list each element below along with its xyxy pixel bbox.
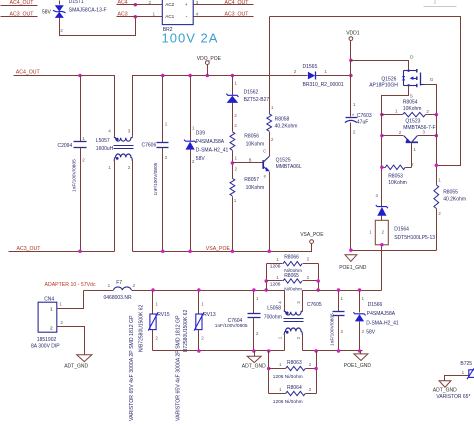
diode D1565 <box>308 72 316 80</box>
svg-text:C7604: C7604 <box>228 318 243 324</box>
transistor Q1526 P-MOSFET <box>402 69 425 87</box>
value BZT52-B27 <box>244 97 270 103</box>
pin 3 of D1564 <box>376 193 379 198</box>
svg-text:1: 1 <box>234 198 237 203</box>
svg-text:B725: B725 <box>460 361 472 367</box>
varistor RV15 <box>148 291 158 351</box>
node junction D1566 bottom <box>358 349 362 353</box>
node junction VDD1 drain row <box>349 58 353 62</box>
value 1nF/100V/0805 of C7604 <box>215 323 248 329</box>
svg-text:ADT_GND: ADT_GND <box>64 364 88 370</box>
resistor R8056 <box>230 132 235 151</box>
pin 2 of D1566 <box>362 329 365 334</box>
svg-text:-: - <box>186 14 188 20</box>
svg-text:40.2Kohm: 40.2Kohm <box>275 124 298 130</box>
svg-text:1206 Ni/0ohm: 1206 Ni/0ohm <box>273 374 303 380</box>
svg-text:AC4_OUT: AC4_OUT <box>16 69 41 75</box>
svg-text:1: 1 <box>462 370 465 375</box>
svg-text:MMBTA56-7-F: MMBTA56-7-F <box>403 125 435 131</box>
wire R8066 bracket left <box>266 264 268 291</box>
refdes D39 <box>196 130 205 136</box>
value 10Kohm of R8056 <box>246 142 265 148</box>
svg-text:AC3_OUT: AC3_OUT <box>17 246 42 252</box>
node junction Q1525 base tap <box>231 161 235 165</box>
refdes R8055 <box>443 190 458 196</box>
wire top rail right segment <box>133 76 308 137</box>
transistor Q1525 NPN <box>263 156 269 171</box>
diode D1562 zener <box>226 76 238 132</box>
svg-text:2: 2 <box>296 336 301 339</box>
pin 2 of D1565 <box>294 69 297 74</box>
node POE1_GND label upper <box>339 265 367 271</box>
pin 1 of R8057 <box>234 198 237 203</box>
svg-text:POE1_GND: POE1_GND <box>339 265 367 271</box>
svg-text:1: 1 <box>362 296 365 301</box>
wire Q1523 collector row <box>418 135 437 137</box>
pin 4 of L5057 <box>108 129 111 134</box>
wire R8066 bracket right <box>318 264 320 291</box>
svg-text:1: 1 <box>369 229 372 234</box>
refdes RV15 <box>157 312 170 318</box>
node VSA_POE label on bus <box>206 246 231 252</box>
node junction R8063 bracket right top <box>314 349 318 353</box>
node junction R8065 left <box>264 279 268 283</box>
value 1nF/100V/0805 of C7605 rotated <box>329 313 335 346</box>
svg-text:100V 2A: 100V 2A <box>162 31 219 46</box>
svg-text:2: 2 <box>438 211 441 216</box>
pin 1 of C7606 <box>165 122 168 127</box>
svg-text:POE1_GND: POE1_GND <box>344 363 372 369</box>
wire R8056 to R8057 <box>232 151 234 179</box>
value 8A 300V DIP <box>31 343 60 349</box>
diode D39 TVS <box>184 76 196 252</box>
refdes C7604 <box>228 318 243 324</box>
wire net AC3_OUT from bridge <box>194 16 254 18</box>
svg-text:B: B <box>249 158 252 163</box>
transistor Q1523 PNP <box>404 136 418 143</box>
node junction VDD1 D1565 row <box>349 74 353 78</box>
value 100V 2A of BR2 <box>162 31 219 46</box>
pin S of Q1526 <box>410 94 413 100</box>
wire Q1525 base <box>233 162 263 164</box>
refdes D1566 <box>368 302 383 308</box>
svg-text:1: 1 <box>234 80 237 85</box>
svg-text:1: 1 <box>50 307 53 313</box>
resistor R8055 <box>434 185 439 209</box>
value 1nF/100V/0805 of C2094 rotated <box>71 159 77 192</box>
ground ADT_GND at CN4 <box>77 355 92 362</box>
node junction D1566 top <box>358 288 362 292</box>
refdes R8064 <box>287 385 302 391</box>
svg-text:1: 1 <box>192 126 195 131</box>
svg-text:AC3: AC3 <box>118 11 128 17</box>
value 0468003.NR <box>104 295 132 301</box>
svg-text:C: C <box>263 149 266 154</box>
pin 3 of L5057 <box>128 129 131 134</box>
svg-text:SDT5H100LP5-13: SDT5H100LP5-13 <box>394 235 435 241</box>
refdes F7 <box>116 280 122 286</box>
resistor R8058 <box>267 114 272 131</box>
pin 1 of D39 <box>192 126 195 131</box>
wire D1571 pin2 to AC3 net <box>60 17 136 36</box>
value 1600uH <box>96 146 114 152</box>
wire L5057 bottom-right pin to bus <box>132 161 134 252</box>
svg-text:1: 1 <box>165 122 168 127</box>
pin 2 of CN4 <box>60 320 63 325</box>
pin 1 of CN4 <box>59 302 62 307</box>
pin 2 of BR2 <box>149 0 152 5</box>
node junction D1564 box bottom <box>380 243 384 247</box>
refdes R8065 <box>284 273 299 279</box>
svg-text:AP18P10GH: AP18P10GH <box>369 83 398 89</box>
svg-text:1: 1 <box>380 162 383 167</box>
pin 2 of RV15 <box>155 335 158 340</box>
value 700ohm <box>264 315 282 321</box>
wire net AC4_OUT from bridge <box>194 4 254 6</box>
node junction C7606 top <box>161 74 165 78</box>
node port VDD1 <box>346 30 360 60</box>
polarity + of C7603 <box>352 114 355 119</box>
pin 2 of L5057 <box>128 165 131 170</box>
resistor R8065 <box>267 279 319 283</box>
svg-text:2: 2 <box>192 159 195 164</box>
node AC3 label <box>118 11 128 17</box>
value 1206 of R8066 <box>270 263 281 269</box>
svg-text:AC1: AC1 <box>165 14 174 19</box>
svg-text:2: 2 <box>133 283 136 288</box>
svg-text:AC4: AC4 <box>118 0 128 5</box>
resistor R8053 <box>385 165 405 169</box>
wire source-net vertical <box>381 96 383 207</box>
svg-text:VSA_POE: VSA_POE <box>300 232 324 238</box>
svg-text:1nF/100V/0805: 1nF/100V/0805 <box>153 162 159 195</box>
svg-text:2: 2 <box>294 69 297 74</box>
svg-text:2: 2 <box>60 320 63 325</box>
svg-text:1: 1 <box>201 301 204 306</box>
resistor R8057 <box>230 178 235 196</box>
node AC3_OUT label mid-bus <box>17 246 42 252</box>
pin 1 of RV15 <box>155 301 158 306</box>
pin 2 of R8058 <box>271 137 274 142</box>
node AC4_OUT label mid rail <box>16 69 41 75</box>
svg-text:2: 2 <box>309 362 312 367</box>
pin 2 of R8055 <box>438 211 441 216</box>
wire CN4 pin2 to ADT_GND <box>57 327 85 355</box>
ground ADT_GND mid <box>247 351 261 363</box>
svg-text:2: 2 <box>307 257 310 262</box>
wire R8053 left lead <box>382 167 386 169</box>
svg-text:ADAPTER 10 - 57Vdc: ADAPTER 10 - 57Vdc <box>45 282 96 288</box>
node junction C7604 top <box>252 288 256 292</box>
refdes R8056 <box>244 134 259 140</box>
svg-text:1: 1 <box>276 257 279 262</box>
pin 2 of C7603 <box>353 130 356 135</box>
inductor L5058 common-mode choke <box>284 310 304 335</box>
pin 2 of L5058 rotated <box>296 336 301 339</box>
diode D1564 TVS with package box <box>375 205 388 291</box>
value D-SMA-H2_41 <box>196 147 229 153</box>
pin 2 of D1564 <box>382 229 385 234</box>
svg-text:1nF/100V/0805: 1nF/100V/0805 <box>71 159 77 192</box>
svg-text:1: 1 <box>341 296 344 301</box>
wire R8055 leads <box>436 181 438 251</box>
wire POE1_GND row <box>351 250 437 252</box>
wire Q1523 base down <box>411 143 413 168</box>
svg-text:1: 1 <box>108 165 111 170</box>
value P4SMAJ58A <box>196 139 225 145</box>
node junction R8066 bracket bottom-left <box>264 288 268 292</box>
pin 1 of D1566 <box>362 296 365 301</box>
refdes D1562 <box>244 89 259 95</box>
connector CN4 body <box>38 302 57 332</box>
node junction R8063 bracket left top <box>267 349 271 353</box>
pin 2 of RV13 <box>201 335 204 340</box>
svg-text:1206: 1206 <box>270 263 281 269</box>
varistor RV13 <box>194 291 204 351</box>
svg-text:1: 1 <box>108 283 111 288</box>
pin 1 of R8055 <box>438 177 441 182</box>
wire net AC4 to bridge <box>117 4 163 6</box>
value 58V of D1571 <box>42 10 52 16</box>
wire R8054 right <box>426 114 437 116</box>
refdes R8058 <box>275 116 290 122</box>
node junction source-net R8054 <box>380 113 384 117</box>
node junction C2094 bottom <box>78 249 82 253</box>
inductor L5057 common-mode choke <box>114 137 134 161</box>
pin 4 of L5058 rotated <box>277 301 282 304</box>
refdes Q1523 <box>405 119 420 125</box>
pin 1 of C2094 <box>82 136 85 141</box>
svg-text:C7606: C7606 <box>142 142 157 148</box>
capacitor C7606 <box>157 76 169 252</box>
svg-text:VSA_POE: VSA_POE <box>206 246 231 252</box>
wire top rail left segment <box>14 76 115 137</box>
svg-text:1: 1 <box>82 136 85 141</box>
svg-text:2: 2 <box>234 123 237 128</box>
ground POE1_GND lower <box>354 351 368 361</box>
svg-text:D-SMA-H2_41: D-SMA-H2_41 <box>366 320 399 326</box>
refdes Q1526 <box>381 76 396 82</box>
node junction D39 top <box>188 74 192 78</box>
refdes C2094 <box>58 143 73 149</box>
svg-text:3: 3 <box>376 193 379 198</box>
svg-text:2: 2 <box>362 329 365 334</box>
wire gate to right column <box>425 85 437 115</box>
svg-text:R8066: R8066 <box>284 254 299 260</box>
svg-text:RV13: RV13 <box>203 312 216 318</box>
wire Q1523 emitter row <box>382 135 404 137</box>
value 1206 of R8065 <box>270 282 281 288</box>
node junction Q1523 emitter row <box>380 134 384 138</box>
node junction R8065 right <box>316 279 320 283</box>
svg-text:1nF/100V/0805: 1nF/100V/0805 <box>215 323 248 329</box>
svg-text:4: 4 <box>277 301 282 304</box>
node junction C7605 top <box>337 288 341 292</box>
svg-text:2: 2 <box>411 162 414 167</box>
value 1206 Ni/0ohm of R8063 <box>273 374 303 380</box>
wire R8053 right lead <box>406 167 412 169</box>
svg-text:2: 2 <box>234 113 237 118</box>
value 40.2Kohm of R8058 <box>275 124 298 130</box>
wire R8057 to VSA_POE bus <box>232 197 234 252</box>
svg-text:2: 2 <box>165 155 168 160</box>
node junction POE1_GND <box>349 248 353 252</box>
node junction R8064 left <box>267 367 271 371</box>
svg-text:RV15: RV15 <box>157 312 170 318</box>
svg-text:L5058: L5058 <box>267 305 281 311</box>
svg-text:2: 2 <box>256 331 259 336</box>
svg-text:D1566: D1566 <box>368 302 383 308</box>
svg-text:1206: 1206 <box>270 282 281 288</box>
svg-text:C7605: C7605 <box>307 302 322 308</box>
capacitor C7604 <box>248 291 261 351</box>
pin 1 of R8065 <box>276 275 279 280</box>
wire net AC3 to bridge <box>117 16 163 18</box>
pin 1 of C7603 <box>353 102 356 107</box>
svg-text:1: 1 <box>279 387 282 392</box>
value VARISTOR 65 bottom right <box>436 394 470 400</box>
node port VDO_POE <box>197 56 222 76</box>
svg-text:2: 2 <box>309 387 312 392</box>
node ADT_GND label bottom right <box>433 388 457 394</box>
value SDT5H100LP5-13 <box>394 235 435 241</box>
node junction C7606 bottom <box>161 249 165 253</box>
svg-text:0468003.NR: 0468003.NR <box>104 295 132 301</box>
svg-text:2: 2 <box>434 0 437 5</box>
svg-text:1: 1 <box>324 69 327 74</box>
wire D1565 cathode to VDD1 node <box>316 75 351 77</box>
pin 3 of BR2 <box>196 0 199 5</box>
svg-text:R8054: R8054 <box>403 100 418 106</box>
wire partial varistor to ADT_GND <box>445 376 469 381</box>
value 47uF <box>357 120 368 126</box>
svg-text:SMAJ58CA-13-F: SMAJ58CA-13-F <box>69 8 107 14</box>
value 40.2Kohm of R8055 <box>443 197 466 203</box>
svg-text:R8053: R8053 <box>388 173 403 179</box>
svg-text:1851902: 1851902 <box>37 337 57 343</box>
svg-text:MMBTA06L: MMBTA06L <box>276 164 302 170</box>
svg-text:R8065: R8065 <box>284 273 299 279</box>
pin 1 of L5058 rotated <box>277 336 282 339</box>
wire L5058 top-left pin <box>284 291 286 312</box>
value Ni/0ohm of R8065 <box>284 286 302 292</box>
value VARISTOR rotated RV15 <box>129 315 135 421</box>
node junction C7604 bottom ADT_GND <box>252 349 256 353</box>
svg-text:1: 1 <box>438 177 441 182</box>
svg-text:4: 4 <box>196 12 199 17</box>
node junction D39 bottom <box>188 249 192 253</box>
svg-text:10Kohm: 10Kohm <box>246 185 265 191</box>
svg-text:2: 2 <box>128 165 131 170</box>
pin 1 of R8054 <box>395 109 398 114</box>
node junction AC3 x135 <box>134 15 138 19</box>
diode D1571 bidirectional TVS <box>53 1 65 18</box>
pin 2 of R8066 <box>307 257 310 262</box>
pin 1 of C7604 <box>256 296 259 301</box>
value P4SMAJ58A of D1566 <box>367 311 396 317</box>
pin 2 of D1562 <box>234 113 237 118</box>
value 10Kohm of R8054 <box>403 106 422 112</box>
fuse F7 <box>84 287 285 291</box>
svg-text:VARISTOR 65V 4xF 3000A 2P SMD: VARISTOR 65V 4xF 3000A 2P SMD 1812 GP <box>176 315 182 421</box>
svg-text:1: 1 <box>276 275 279 280</box>
svg-text:CN4: CN4 <box>44 297 54 303</box>
pin 2 of R8056 <box>234 123 237 128</box>
svg-text:VARISTOR 65*: VARISTOR 65* <box>436 394 470 400</box>
svg-text:1: 1 <box>395 109 398 114</box>
svg-text:AC2: AC2 <box>165 2 174 7</box>
svg-text:58V: 58V <box>196 156 206 162</box>
pin 1 of R8058 <box>271 105 274 110</box>
pin G of Q1526 <box>430 77 434 83</box>
wire CN4 pin1 to fuse rail <box>57 291 84 309</box>
wire source elbow <box>382 86 409 115</box>
pin 2 of R8063 <box>309 362 312 367</box>
svg-text:3: 3 <box>422 130 425 135</box>
svg-text:B72580U1500K 62: B72580U1500K 62 <box>183 310 189 352</box>
pin 1 of F7 <box>108 283 111 288</box>
svg-text:F7: F7 <box>116 280 122 286</box>
refdes R8057 <box>244 177 259 183</box>
ground ADT_GND bottom right <box>439 381 451 387</box>
svg-text:1: 1 <box>155 301 158 306</box>
wire L5057 bottom-left pin to bus <box>114 161 116 252</box>
node B725 label <box>460 361 472 367</box>
svg-text:10Kohm: 10Kohm <box>403 106 422 112</box>
pin B of Q1525 <box>249 158 252 163</box>
node AC3_OUT label right of bridge <box>225 11 250 17</box>
value N/B72580U1500K 62 rotated RV15 <box>139 305 145 352</box>
pin 2 of R8057 <box>235 167 238 172</box>
svg-text:R8056: R8056 <box>244 134 259 140</box>
svg-text:N/B72580U1500K 62: N/B72580U1500K 62 <box>139 305 145 352</box>
refdes D1565 <box>303 64 318 70</box>
node junction VDO_POE <box>206 74 210 78</box>
refdes BR2 <box>163 27 173 33</box>
value MMBTA06L <box>276 164 302 170</box>
svg-text:1600uH: 1600uH <box>96 146 114 152</box>
wire Q1525 emitter to VSA_POE bus <box>269 172 271 252</box>
svg-text:1: 1 <box>413 147 416 152</box>
svg-text:P4SMAJ58A: P4SMAJ58A <box>196 139 225 145</box>
svg-text:D39: D39 <box>196 130 205 136</box>
wire VDD1 vertical <box>350 61 352 117</box>
wire VSA_POE bus left segment <box>9 251 115 253</box>
pin 3 of L5058 rotated <box>296 301 301 304</box>
svg-text:1: 1 <box>59 302 62 307</box>
value AP18P10GH <box>369 83 398 89</box>
value VARISTOR rotated RV13 <box>176 315 182 421</box>
node ADAPTER label <box>45 282 96 288</box>
svg-text:R8057: R8057 <box>244 177 259 183</box>
node AC4_OUT label top-left <box>10 0 35 6</box>
wire rail290 right segment <box>303 291 382 312</box>
node junction D1562 top <box>231 74 235 78</box>
svg-text:Q1523: Q1523 <box>405 119 420 125</box>
node AC4 label <box>118 0 128 5</box>
pin 2 of D1571 <box>60 28 63 33</box>
svg-text:D-SMA-H2_41: D-SMA-H2_41 <box>196 147 229 153</box>
svg-text:8A 300V DIP: 8A 300V DIP <box>31 343 60 349</box>
pin 2 of C2094 <box>82 158 85 163</box>
refdes C7605 <box>307 302 322 308</box>
refdes D1564 <box>394 226 409 232</box>
pin 1 of R8063 <box>279 362 282 367</box>
svg-text:D: D <box>410 55 414 61</box>
node junction R8053 source column <box>380 166 384 170</box>
refdes Q1525 <box>276 157 291 163</box>
wire gate-net loop top right <box>270 17 461 166</box>
